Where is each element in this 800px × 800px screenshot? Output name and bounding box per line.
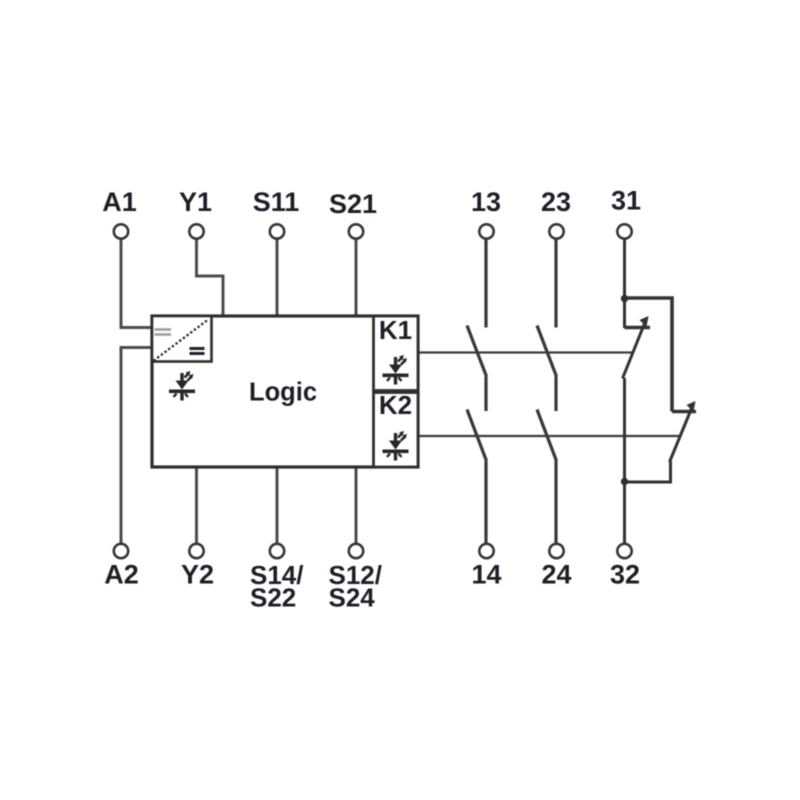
svg-text:S11: S11 (253, 187, 300, 217)
svg-text:13: 13 (471, 187, 501, 217)
svg-text:S24: S24 (329, 583, 376, 613)
svg-text:A2: A2 (104, 560, 139, 590)
svg-text:Y1: Y1 (179, 187, 212, 217)
svg-text:24: 24 (541, 560, 571, 590)
svg-text:23: 23 (541, 187, 571, 217)
svg-text:S22: S22 (250, 583, 296, 613)
svg-text:Logic: Logic (249, 379, 317, 407)
svg-text:Y2: Y2 (181, 560, 214, 590)
svg-text:K1: K1 (379, 315, 412, 345)
svg-text:31: 31 (611, 186, 641, 216)
svg-text:S21: S21 (329, 189, 377, 219)
svg-text:14: 14 (471, 560, 501, 590)
svg-text:K2: K2 (379, 390, 412, 420)
svg-text:A1: A1 (102, 187, 137, 217)
svg-text:32: 32 (610, 560, 640, 590)
